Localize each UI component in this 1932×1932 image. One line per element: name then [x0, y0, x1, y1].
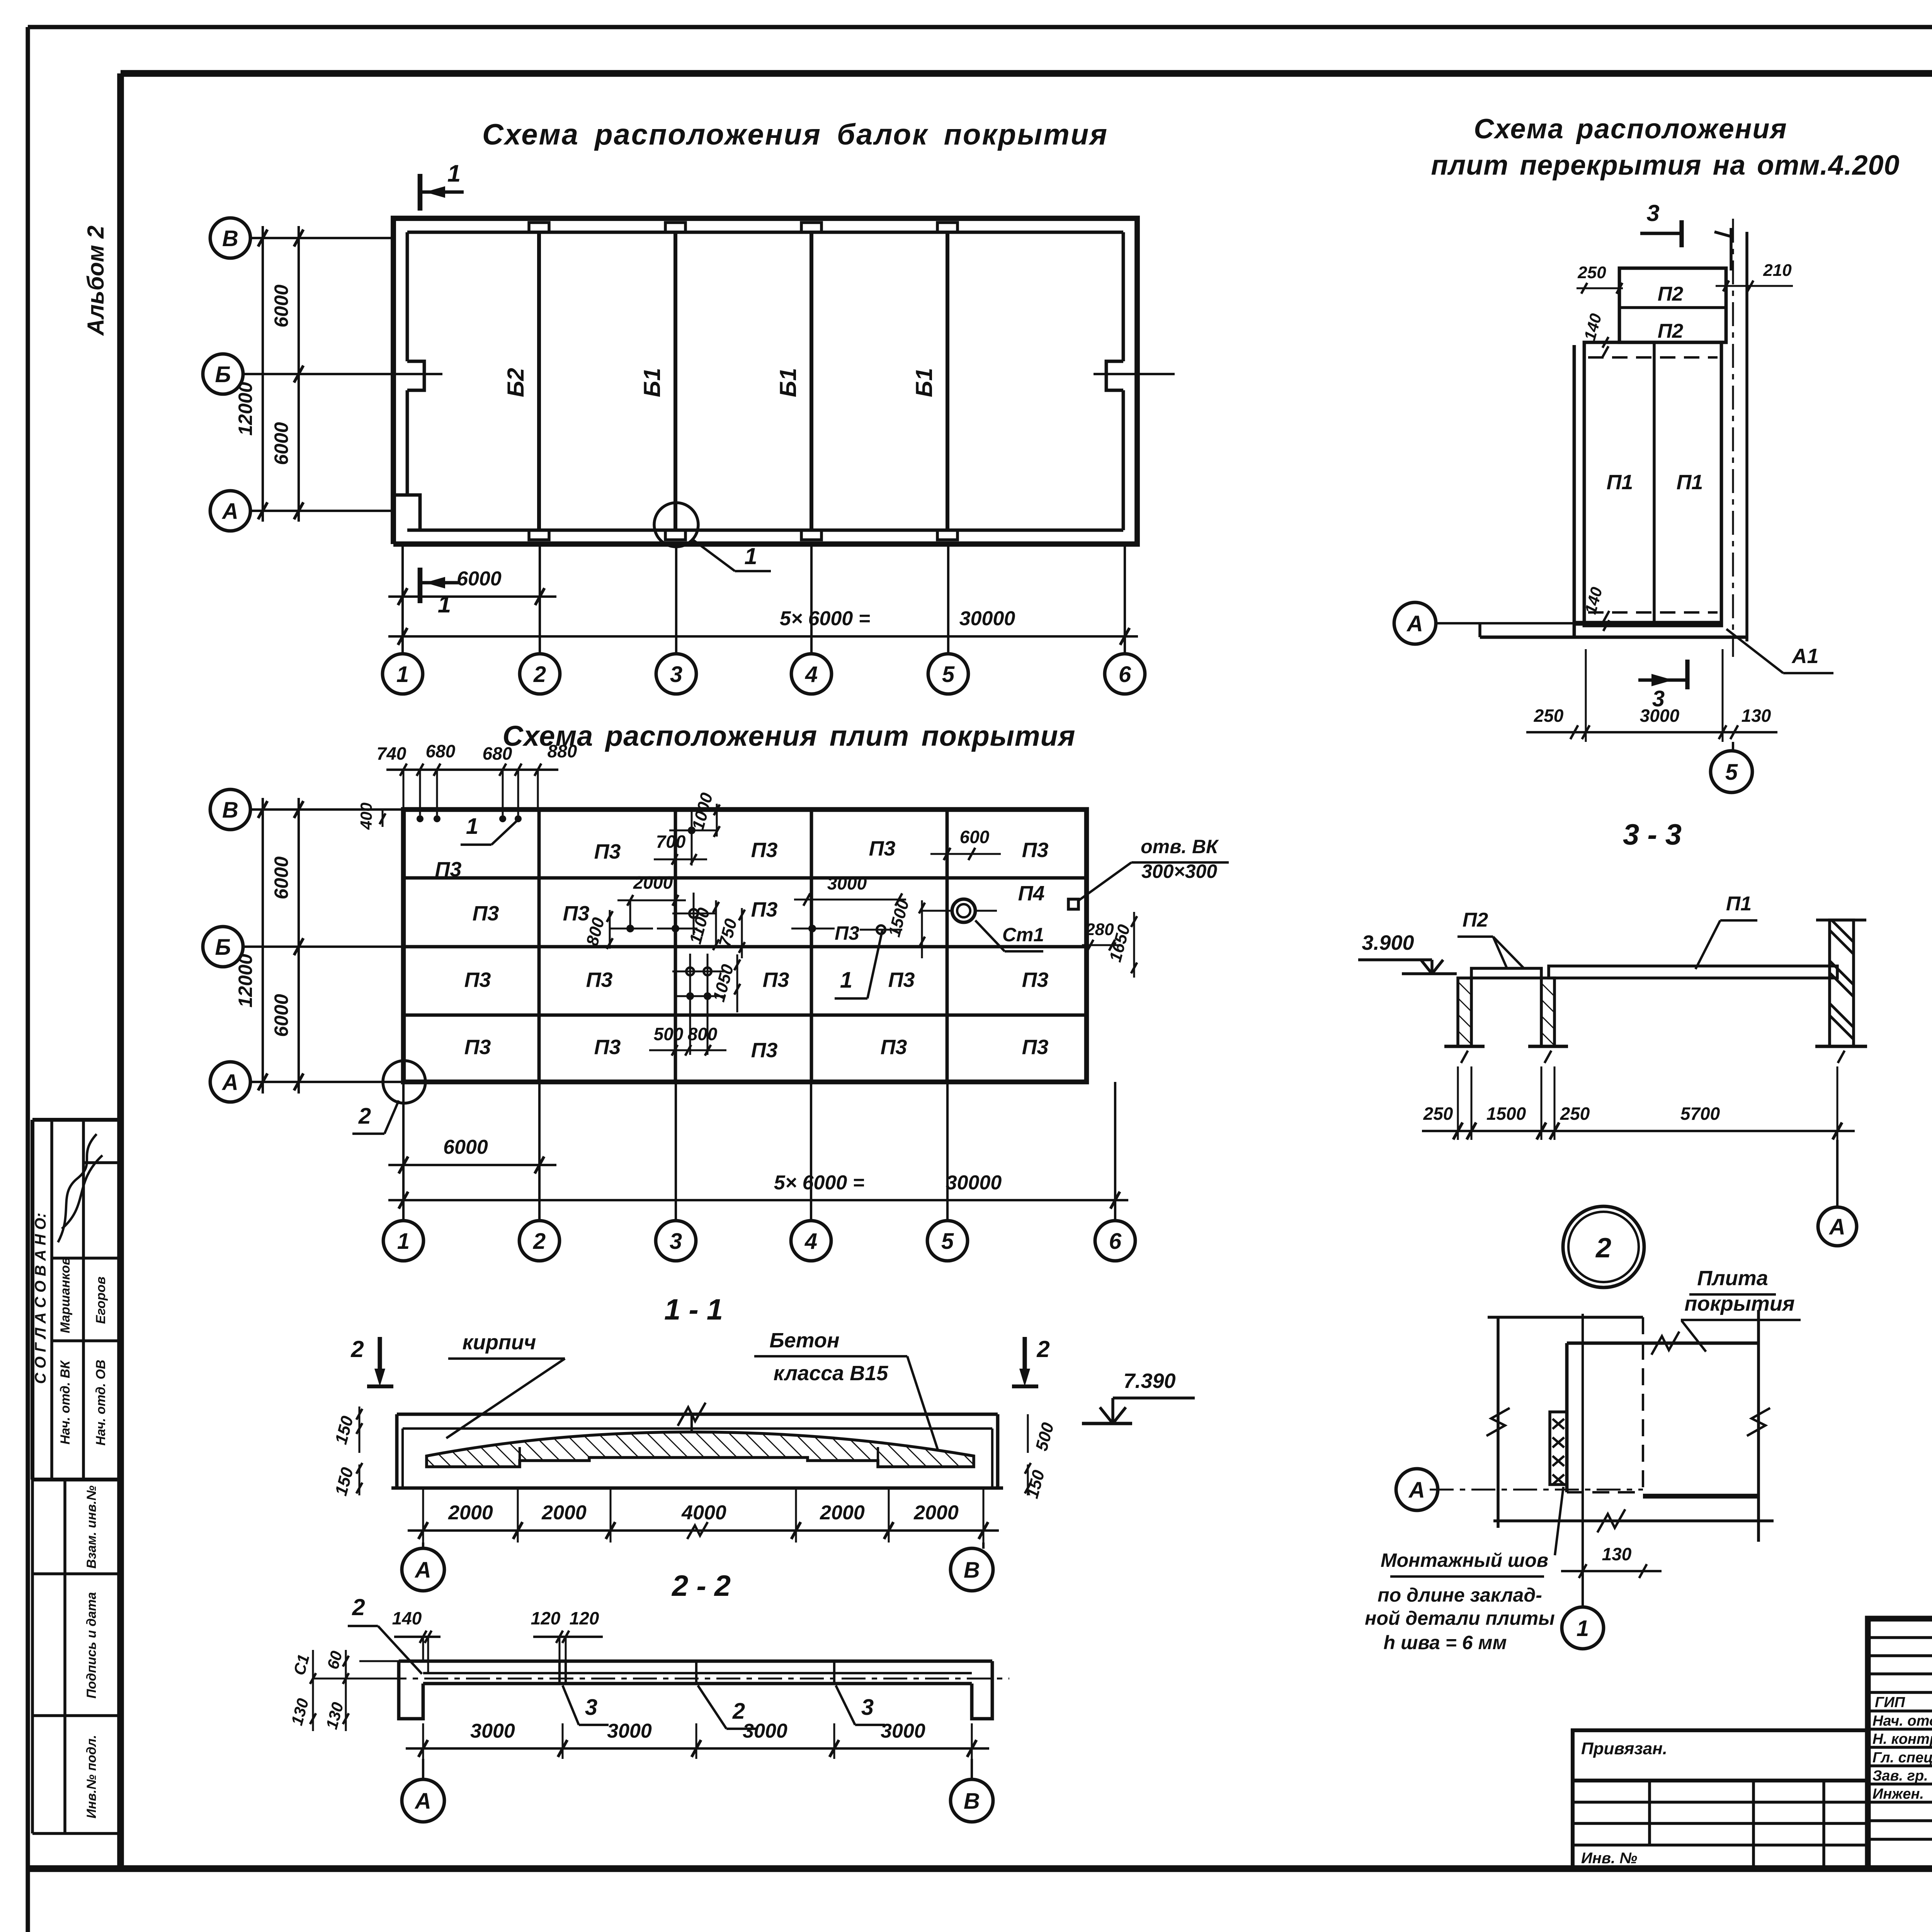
axis circle 3 (plate plan) [656, 1221, 696, 1261]
plan inner wall bottom [407, 529, 1123, 532]
svg-text:30000: 30000 [946, 1172, 1002, 1194]
pier on axis Б left [407, 361, 424, 390]
svg-text:2000: 2000 [633, 872, 673, 893]
svg-text:П3: П3 [1022, 1036, 1049, 1059]
slab П2 (3-3) [1471, 968, 1541, 978]
axis circle А (plate plan) [210, 1062, 250, 1102]
lens step ticks [519, 1447, 521, 1467]
svg-text:В: В [222, 798, 238, 823]
svg-text:800: 800 [688, 1024, 718, 1044]
slab top line [397, 1413, 998, 1416]
inventory strip table [31, 1480, 34, 1833]
axis circle 4 [791, 654, 832, 694]
section mark 1 (lower) [418, 568, 423, 603]
svg-text:П3: П3 [869, 837, 896, 860]
svg-text:1: 1 [466, 814, 478, 839]
svg-text:140: 140 [392, 1608, 422, 1628]
plan outer walls [393, 218, 1137, 544]
slab П1 (3-3) [1549, 966, 1837, 978]
svg-text:400: 400 [357, 803, 375, 830]
plate grid outline [403, 810, 1087, 1082]
svg-text:120: 120 [570, 1608, 599, 1628]
axis circle 5 [928, 654, 968, 694]
vertical dimension 12000 line [262, 226, 264, 522]
axis circle В (1-1) [982, 1543, 985, 1549]
svg-text:отв. ВК: отв. ВК [1141, 836, 1219, 857]
svg-text:П3: П3 [464, 1036, 491, 1059]
vertical dim 6000/6000 (plate plan) [298, 798, 300, 1094]
svg-text:П1: П1 [1607, 471, 1633, 494]
svg-text:700: 700 [656, 832, 686, 852]
axis circle 3 [656, 654, 696, 694]
svg-text:4: 4 [804, 1229, 817, 1254]
axis circle 1 (detail) [1582, 1571, 1584, 1607]
dimension row 3000 x4 (2-2) [406, 1747, 989, 1750]
svg-text:12000: 12000 [235, 382, 256, 435]
svg-text:6000: 6000 [443, 1136, 488, 1158]
plate grid row lines [403, 876, 1087, 880]
axis circle 1 [383, 654, 423, 694]
svg-text:880: 880 [548, 741, 577, 761]
svg-text:2: 2 [533, 1229, 546, 1254]
svg-text:6000: 6000 [457, 568, 502, 590]
svg-text:П2: П2 [1658, 320, 1683, 342]
dimension 6000 (plate plan bottom) [388, 1164, 556, 1166]
svg-text:300×300: 300×300 [1141, 861, 1217, 882]
svg-text:по длине заклад-: по длине заклад- [1378, 1584, 1542, 1606]
svg-text:плит перекрытия на отм.4.2: плит перекрытия на отм.4.200 [1431, 150, 1900, 181]
svg-text:Зав. гр.: Зав. гр. [1872, 1768, 1928, 1784]
svg-text:Инжен.: Инжен. [1872, 1786, 1924, 1802]
axis extension lines below plan [401, 544, 404, 654]
plate joint dots top row [417, 815, 423, 822]
Привязан box [1573, 1730, 1868, 1781]
svg-text:Альбом 2: Альбом 2 [83, 226, 109, 337]
svg-text:3000: 3000 [827, 873, 867, 893]
svg-text:3: 3 [585, 1695, 597, 1720]
svg-text:А: А [414, 1558, 431, 1583]
detail mark circle 2 at corner А-1 [383, 1061, 425, 1103]
svg-text:В: В [222, 226, 238, 251]
svg-text:Взам. инв.№: Взам. инв.№ [84, 1485, 99, 1568]
svg-text:2: 2 [1036, 1336, 1049, 1362]
plate block П1 [1584, 342, 1721, 626]
svg-text:Схема расположения: Схема расположения [1474, 114, 1787, 145]
svg-text:А: А [1406, 611, 1423, 636]
svg-text:2: 2 [358, 1104, 371, 1129]
svg-text:250: 250 [1423, 1104, 1453, 1124]
beam right end block (2-2) [972, 1661, 992, 1719]
plate grid column lines [537, 810, 541, 1082]
svg-text:500: 500 [654, 1024, 684, 1044]
opening отв. ВК 300x300 [1068, 899, 1078, 909]
svg-text:30000: 30000 [959, 607, 1015, 630]
axis circle А [210, 491, 250, 531]
approval table box [32, 1118, 121, 1122]
svg-text:2: 2 [1595, 1233, 1611, 1264]
axis circle 5 (middle plan) [1732, 742, 1734, 751]
sheet outer border [28, 25, 1932, 29]
svg-text:1: 1 [1577, 1616, 1589, 1641]
witness vertical left (detail) [1497, 1317, 1500, 1528]
svg-text:3000: 3000 [607, 1720, 652, 1742]
svg-text:2: 2 [533, 662, 546, 687]
beam Б2 on axis 2 [537, 232, 541, 530]
svg-text:5700: 5700 [1680, 1104, 1720, 1124]
bottom line (detail) [1493, 1519, 1774, 1522]
approval signature squiggle [58, 1134, 102, 1242]
dimensions 740/680/680/880 [386, 769, 558, 771]
svg-text:Егоров: Егоров [94, 1277, 108, 1324]
svg-text:П3: П3 [473, 902, 499, 925]
svg-text:1: 1 [396, 662, 409, 687]
svg-text:120: 120 [531, 1608, 561, 1628]
П1 dashed joints [1588, 356, 1718, 359]
section mark 3 bottom (middle plan) [1638, 679, 1687, 682]
axis circle В (2-2) [971, 1759, 973, 1779]
axis А line left [250, 510, 393, 512]
svg-text:П3: П3 [594, 840, 621, 863]
axis circle 5 (plate plan) [927, 1221, 968, 1261]
svg-text:1: 1 [744, 543, 757, 569]
svg-text:П3: П3 [751, 1039, 778, 1062]
axis Б line left [242, 373, 377, 375]
svg-text:Нач. отд. ОВ: Нач. отд. ОВ [94, 1360, 108, 1446]
beam slab lines (2-2) [423, 1672, 972, 1674]
svg-text:1500: 1500 [1486, 1104, 1526, 1124]
svg-text:Привязан.: Привязан. [1581, 1739, 1667, 1758]
beam axis dash-dot (2-2) [383, 1678, 1009, 1680]
svg-text:5: 5 [941, 1229, 954, 1254]
svg-text:5: 5 [1725, 760, 1738, 785]
svg-text:Схема расположения балок п: Схема расположения балок покрытия [482, 118, 1108, 151]
svg-text:3: 3 [670, 1229, 682, 1254]
svg-text:Б: Б [215, 362, 231, 387]
svg-text:2000: 2000 [913, 1502, 959, 1524]
svg-text:3: 3 [1646, 200, 1659, 226]
middle wall (3-3) [1541, 978, 1554, 1046]
svg-text:Б1: Б1 [775, 368, 801, 397]
svg-text:покрытия: покрытия [1684, 1292, 1794, 1315]
svg-text:А: А [1828, 1214, 1845, 1240]
witness lines (3-3) [1457, 1066, 1459, 1140]
dimension 5x6000=30000 (plate plan) [388, 1199, 1128, 1201]
dimension 5x6000=30000 [388, 635, 1138, 638]
beam Б1 on axis 5 [946, 232, 949, 530]
left wall (3-3) [1458, 978, 1471, 1046]
svg-text:А: А [414, 1789, 431, 1814]
svg-text:4000: 4000 [681, 1502, 726, 1524]
svg-text:6000: 6000 [270, 994, 292, 1037]
drain stack Ст1 symbol [952, 899, 975, 922]
dim witness lines 1-1 [422, 1488, 424, 1543]
dots cluster 1050 [686, 968, 694, 975]
arched screed (hatched lens) [427, 1432, 974, 1467]
dimension row 250/1500/250/5700 [1422, 1130, 1855, 1132]
axis circle А (middle plan) [1394, 602, 1436, 644]
svg-text:h шва = 6 мм: h шва = 6 мм [1384, 1632, 1507, 1653]
vertical dim 12000 (plate plan) [262, 798, 264, 1094]
right wall second vertical [1745, 232, 1748, 641]
svg-text:250: 250 [1560, 1104, 1590, 1124]
svg-text:А1: А1 [1791, 645, 1818, 668]
vertical dimension 6000/6000 line [298, 226, 300, 522]
svg-text:2: 2 [350, 1336, 364, 1362]
slab second line [403, 1427, 992, 1430]
svg-text:П3: П3 [751, 898, 778, 921]
svg-text:П1: П1 [1677, 471, 1703, 494]
svg-text:Подпись и дата: Подпись и дата [84, 1592, 99, 1699]
svg-text:6000: 6000 [270, 856, 292, 899]
svg-text:С О Г Л А С О В А Н О:: С О Г Л А С О В А Н О: [32, 1213, 49, 1384]
svg-text:740: 740 [377, 743, 406, 764]
svg-text:П3: П3 [1022, 968, 1049, 992]
svg-text:Маршанков: Маршанков [58, 1257, 73, 1333]
beam Б1 on axis 4 [810, 232, 813, 530]
svg-text:П3: П3 [1022, 838, 1049, 862]
svg-text:3.900: 3.900 [1362, 931, 1414, 954]
axis Б line left (plate plan) [242, 946, 403, 948]
svg-text:2000: 2000 [541, 1502, 587, 1524]
svg-text:3000: 3000 [743, 1720, 787, 1742]
right wall axis dash-dot [1732, 219, 1734, 657]
offset line 130 (detail) [1582, 1314, 1584, 1573]
svg-text:5× 6000 =: 5× 6000 = [780, 607, 870, 630]
detail mark circle 2 (large) [1563, 1206, 1644, 1287]
axis dash-dot А (detail) [1430, 1489, 1643, 1491]
plate joints (2-2) [558, 1661, 561, 1684]
svg-text:П4: П4 [1018, 882, 1045, 905]
svg-text:250: 250 [1534, 706, 1564, 726]
svg-text:Ст1: Ст1 [1002, 924, 1044, 946]
inner frame [121, 70, 1932, 77]
svg-text:130: 130 [1742, 706, 1771, 726]
svg-text:ной детали плиты: ной детали плиты [1365, 1607, 1555, 1629]
witness lines (middle plan bottom) [1585, 649, 1587, 742]
beam left end block (2-2) [399, 1661, 423, 1719]
axis circle 6 [1105, 654, 1145, 694]
svg-text:6000: 6000 [270, 284, 292, 327]
beam Б1 on axis 3 [673, 232, 677, 530]
axis circle А (1-1) [422, 1543, 424, 1549]
svg-text:2: 2 [352, 1594, 365, 1620]
svg-text:Плита: Плита [1697, 1267, 1768, 1290]
axis circle 2 (plate plan) [519, 1221, 560, 1261]
svg-text:680: 680 [426, 741, 456, 761]
svg-text:Б1: Б1 [911, 368, 937, 397]
title block row lines [1868, 1636, 1932, 1639]
svg-text:Б1: Б1 [639, 368, 665, 397]
svg-text:Схема расположения плит покр: Схема расположения плит покрытия [503, 720, 1076, 752]
svg-text:1: 1 [840, 968, 852, 993]
svg-text:П3: П3 [751, 838, 778, 862]
axis circle В [210, 218, 250, 258]
svg-text:250: 250 [1577, 263, 1606, 282]
embedded joint strip with x-marks [1550, 1412, 1567, 1485]
svg-text:В: В [964, 1558, 980, 1583]
axis В line left (plate plan) [250, 808, 403, 811]
plate outline (detail) [1567, 1342, 1759, 1345]
svg-text:130: 130 [1602, 1544, 1632, 1564]
svg-text:3000: 3000 [470, 1720, 515, 1742]
svg-text:1: 1 [438, 591, 451, 618]
axis circle А (2-2) [422, 1759, 424, 1779]
svg-text:П3: П3 [881, 1036, 907, 1059]
svg-text:Монтажный шов: Монтажный шов [1381, 1549, 1548, 1571]
plate block П2 [1619, 268, 1726, 342]
inventory sub-table [1571, 1781, 1575, 1869]
svg-text:280: 280 [1085, 920, 1114, 939]
axis circle В (plate plan) [210, 789, 250, 830]
axis circle А (detail) [1396, 1469, 1438, 1510]
svg-text:П3: П3 [586, 968, 613, 992]
svg-text:П2: П2 [1463, 909, 1488, 931]
svg-text:П3: П3 [594, 1036, 621, 1059]
title block outline [1868, 1619, 1932, 1869]
svg-text:П3: П3 [763, 968, 789, 992]
svg-text:2 - 2: 2 - 2 [671, 1570, 731, 1602]
plan inner wall left [406, 232, 409, 361]
svg-text:2000: 2000 [448, 1502, 493, 1524]
plan inner wall right [1122, 232, 1125, 361]
svg-text:А: А [1408, 1478, 1425, 1503]
svg-text:6: 6 [1109, 1229, 1122, 1254]
witness vertical right (detail) [1757, 1310, 1760, 1542]
svg-text:680: 680 [483, 743, 512, 764]
svg-text:А: А [221, 499, 238, 524]
svg-text:5: 5 [942, 662, 955, 687]
svg-text:В: В [964, 1789, 980, 1814]
axis circle 6 (plate plan) [1095, 1221, 1135, 1261]
svg-text:П1: П1 [1726, 893, 1752, 915]
axis circle 1 (plate plan) [383, 1221, 423, 1261]
right wall верх hook [1714, 232, 1731, 236]
right wall (3-3) [1830, 920, 1854, 1046]
top line (detail) [1488, 1316, 1643, 1319]
axis circle 4 (plate plan) [791, 1221, 831, 1261]
bottom wall lines (middle plan) [1574, 621, 1721, 626]
svg-text:П3: П3 [464, 968, 491, 992]
pier on axis Б right [1106, 361, 1123, 390]
plan wall corner step bottom-left [393, 495, 420, 530]
svg-text:А: А [221, 1070, 238, 1095]
svg-text:П3: П3 [563, 902, 590, 925]
wall base marks (3-3) [1444, 1045, 1485, 1048]
section walls and bottom [395, 1414, 399, 1488]
svg-text:Бетон: Бетон [769, 1329, 839, 1352]
svg-text:Инв. №: Инв. № [1581, 1850, 1637, 1867]
svg-text:Инв.№ подл.: Инв.№ подл. [84, 1735, 99, 1819]
section mark 1 (top) [418, 174, 423, 211]
svg-text:П3: П3 [435, 858, 462, 881]
dimension row 2000/2000/4000/2000/2000 [408, 1529, 999, 1532]
svg-text:Гл. спец.: Гл. спец. [1872, 1750, 1932, 1766]
plan inner wall top [407, 231, 1123, 234]
axis circle 2 [520, 654, 560, 694]
svg-text:кирпич: кирпич [463, 1331, 536, 1354]
svg-text:П2: П2 [1658, 283, 1683, 305]
svg-text:ГИП: ГИП [1875, 1694, 1905, 1711]
axis circle Б [203, 354, 243, 394]
axis extensions below plate plan [402, 1082, 405, 1221]
svg-text:6: 6 [1119, 662, 1131, 687]
svg-text:3 - 3: 3 - 3 [1623, 818, 1682, 851]
svg-text:2000: 2000 [820, 1502, 865, 1524]
svg-text:1: 1 [447, 160, 461, 187]
svg-text:1 - 1: 1 - 1 [664, 1293, 723, 1326]
svg-text:Н. контр.: Н. контр. [1872, 1731, 1932, 1747]
svg-text:П3: П3 [835, 922, 859, 944]
svg-text:3: 3 [670, 662, 682, 687]
svg-text:210: 210 [1763, 261, 1792, 280]
axis А line left (plate plan) [250, 1081, 403, 1083]
left wall (middle plan) [1573, 345, 1576, 637]
dashed line (detail) [1642, 1317, 1644, 1492]
svg-text:Б2: Б2 [503, 368, 529, 397]
witness lines (2-2) [422, 1723, 424, 1759]
svg-text:класса В15: класса В15 [774, 1362, 888, 1385]
beam top line (2-2) [399, 1660, 992, 1663]
axis А line (middle plan) [1436, 622, 1574, 624]
dimension row 250/3000/130 [1526, 731, 1777, 733]
axis circle А (3-3) [1836, 1140, 1838, 1207]
svg-text:П3: П3 [888, 968, 915, 992]
svg-text:3: 3 [861, 1695, 874, 1720]
svg-text:3000: 3000 [881, 1720, 925, 1742]
svg-text:Б: Б [215, 935, 231, 960]
svg-text:4: 4 [805, 662, 818, 687]
axis В line left [250, 237, 393, 239]
svg-text:6000: 6000 [270, 422, 292, 465]
svg-text:3000: 3000 [1640, 706, 1680, 726]
lens center tick [690, 1414, 693, 1432]
dimension 6000 (bottom row 1) [388, 595, 556, 598]
svg-text:600: 600 [960, 827, 990, 847]
svg-text:5× 6000 =: 5× 6000 = [774, 1172, 864, 1194]
svg-text:Нач. отд.: Нач. отд. [1872, 1713, 1932, 1729]
detail mark circle 1 on beam 3 support [654, 503, 698, 547]
axis circle Б (plate plan) [203, 927, 243, 967]
right wall outer vertical [1730, 228, 1733, 270]
svg-text:Нач. отд. ВК: Нач. отд. ВК [58, 1360, 73, 1445]
svg-text:7.390: 7.390 [1123, 1369, 1175, 1393]
svg-text:1: 1 [397, 1229, 410, 1254]
svg-text:12000: 12000 [235, 954, 256, 1007]
